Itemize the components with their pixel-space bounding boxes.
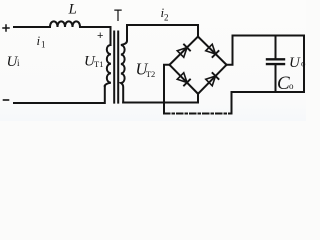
svg-text:o: o bbox=[289, 81, 294, 91]
svg-text:U: U bbox=[289, 55, 301, 71]
svg-text:+: + bbox=[97, 30, 103, 42]
svg-text:1: 1 bbox=[41, 40, 46, 50]
svg-text:T: T bbox=[114, 6, 122, 25]
bridge diamond edge top-left bbox=[170, 37, 199, 65]
diode D2 (upper-right, pointing to right corner) bbox=[205, 44, 219, 58]
transformer core bars bbox=[113, 32, 115, 103]
wire secondary bottom to bridge bottom corner bbox=[123, 94, 198, 103]
transformer T secondary winding bbox=[121, 25, 127, 103]
wire bridge left corner to negative rail riser bbox=[164, 65, 170, 114]
svg-text:o: o bbox=[301, 59, 306, 69]
node + (source positive terminal) bbox=[3, 25, 9, 31]
svg-text:i: i bbox=[37, 33, 41, 48]
wire riser to bottom output rail bbox=[231, 92, 233, 114]
wire top output rail bbox=[233, 35, 305, 37]
svg-text:L: L bbox=[68, 2, 77, 18]
wire dashed negative return bbox=[164, 113, 232, 115]
bridge diamond edge top-right bbox=[198, 37, 227, 65]
wire inductor to transformer primary top bbox=[80, 27, 111, 45]
capacitor Co plates bbox=[267, 58, 284, 60]
capacitor Co bottom lead bbox=[275, 66, 277, 93]
wire bottom output rail bbox=[232, 91, 305, 93]
wire bottom-left from - to transformer primary bottom bbox=[14, 86, 105, 103]
bridge diamond edge bottom-left bbox=[170, 65, 199, 94]
wire top-left from + to inductor bbox=[14, 26, 50, 28]
transformer T primary winding bbox=[105, 45, 111, 86]
bridge diamond edge bottom-right bbox=[198, 65, 227, 94]
diode D1 (upper-left, pointing to top corner) bbox=[177, 44, 191, 58]
diode D3 (lower-left, pointing to bottom corner) bbox=[177, 72, 191, 86]
wire secondary top to bridge top corner bbox=[127, 25, 198, 37]
diode D4 (lower-right, pointing to right corner) bbox=[205, 72, 219, 86]
wire bridge right corner to top rail riser bbox=[227, 36, 233, 65]
svg-text:T2: T2 bbox=[146, 69, 155, 79]
svg-text:2: 2 bbox=[164, 13, 169, 23]
wire right edge load connection bbox=[303, 36, 305, 93]
inductor L bbox=[50, 21, 80, 27]
node - (source negative terminal) bbox=[4, 99, 9, 101]
capacitor Co top lead bbox=[275, 36, 277, 59]
svg-text:T1: T1 bbox=[94, 59, 103, 69]
